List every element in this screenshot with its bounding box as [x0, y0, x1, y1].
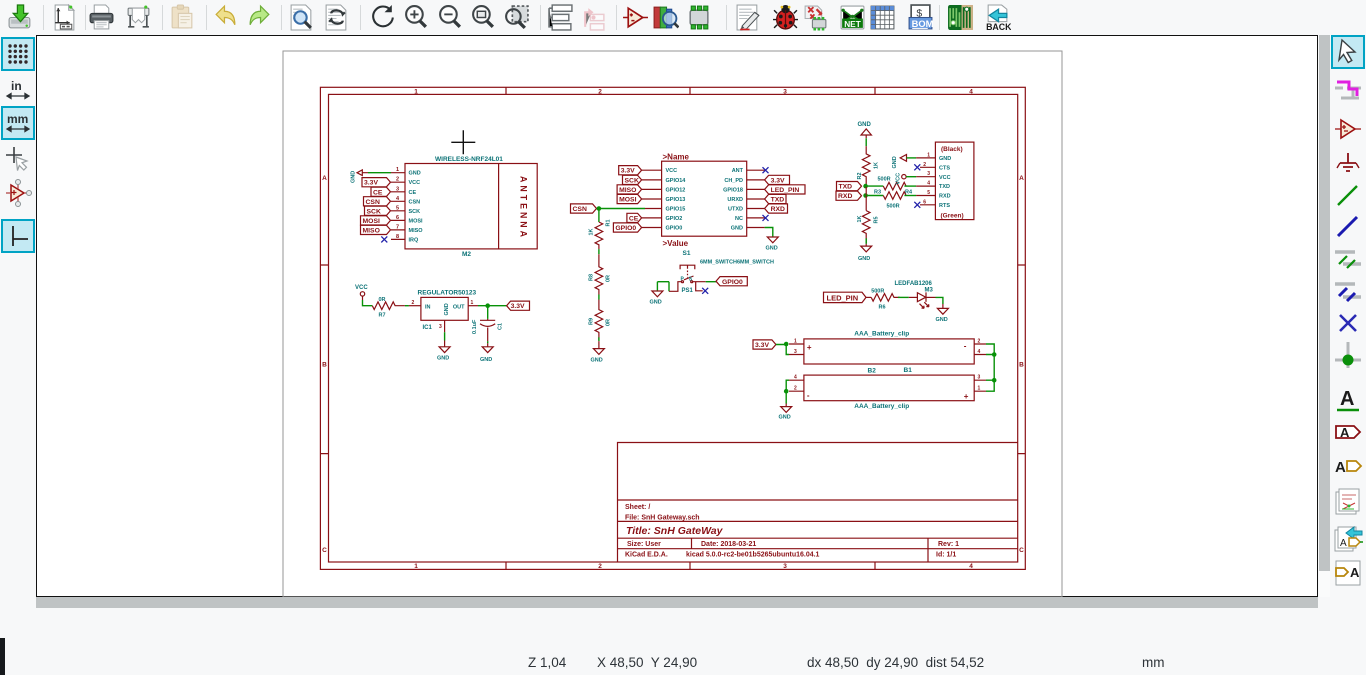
- svg-text:B: B: [1019, 362, 1024, 369]
- svg-text:GPIO13: GPIO13: [666, 197, 686, 203]
- icon HV wires (active): [3, 221, 33, 251]
- svg-text:RTS: RTS: [939, 203, 950, 209]
- svg-text:5: 5: [396, 205, 399, 211]
- svg-text:1: 1: [978, 386, 981, 392]
- svg-text:Sheet: /: Sheet: /: [625, 504, 650, 511]
- svg-text:1: 1: [396, 167, 399, 173]
- svg-text:LEDFAB1206: LEDFAB1206: [895, 281, 933, 287]
- global label 3.3V (S1 VCC): [619, 166, 642, 175]
- svg-text:8: 8: [396, 234, 399, 240]
- svg-text:3.3V: 3.3V: [771, 177, 785, 184]
- svg-text:CE: CE: [373, 189, 383, 196]
- svg-text:7: 7: [396, 224, 399, 230]
- svg-text:UTXD: UTXD: [728, 207, 743, 213]
- svg-text:VCC: VCC: [355, 285, 368, 291]
- svg-text:GND: GND: [858, 256, 870, 262]
- svg-text:0R: 0R: [379, 297, 386, 303]
- svg-text:PS1: PS1: [682, 288, 694, 294]
- svg-text:1: 1: [414, 563, 418, 570]
- svg-text:1: 1: [794, 338, 797, 344]
- B2 right pins: [974, 380, 986, 391]
- svg-text:GND: GND: [779, 415, 791, 421]
- power GND below B2: [779, 404, 792, 421]
- svg-text:TXD: TXD: [771, 197, 785, 204]
- wire RXD to R3: [866, 195, 884, 197]
- icon print: [88, 4, 115, 31]
- svg-text:1K: 1K: [857, 215, 863, 222]
- svg-text:VCC: VCC: [666, 168, 678, 174]
- junction at B1 left: [784, 342, 789, 347]
- global label TXD: [837, 182, 862, 191]
- title block frame: [618, 443, 1018, 563]
- wire R4 to pin4: [904, 185, 916, 187]
- svg-text:S1: S1: [683, 250, 691, 257]
- svg-text:RXD: RXD: [771, 206, 785, 213]
- no-connect X on S1 ANT: [763, 167, 769, 173]
- svg-text:Date: 2018-03-21: Date: 2018-03-21: [701, 541, 756, 548]
- icon find: [288, 4, 315, 31]
- svg-text:R2: R2: [857, 172, 863, 179]
- frame outer border: [320, 87, 1025, 569]
- power GND left of M2: [351, 170, 369, 183]
- svg-text:MISO: MISO: [619, 187, 636, 194]
- global label MISO (M2 pin7): [361, 225, 391, 234]
- svg-text:R8: R8: [589, 274, 595, 281]
- wire junction to C1: [487, 306, 489, 319]
- right toolbar: [1330, 35, 1366, 620]
- global label 3.3V (M2 pin2): [362, 178, 391, 187]
- svg-text:M2: M2: [462, 251, 471, 258]
- S1 right pins: [747, 170, 765, 227]
- resistor R4: [878, 177, 913, 196]
- svg-text:GND: GND: [650, 300, 662, 306]
- svg-text:3: 3: [978, 375, 981, 381]
- resistor R8: [589, 254, 612, 294]
- svg-text:LED_PIN: LED_PIN: [771, 187, 800, 194]
- power GND above R2: [858, 122, 872, 138]
- svg-text:3.3V: 3.3V: [364, 180, 378, 187]
- S1 body: [662, 161, 747, 236]
- wire GND to pin 1: [368, 172, 391, 174]
- svg-text:GPIO18: GPIO18: [723, 187, 743, 193]
- svg-text:6: 6: [396, 215, 399, 221]
- svg-text:>Value: >Value: [663, 239, 689, 248]
- wire 3.3V to B1 pins: [776, 345, 789, 355]
- wire B2 left pins to GND: [786, 380, 789, 403]
- global label MOSI (S1 GPIO13): [617, 194, 642, 203]
- global label RXD (S1 UTXD): [765, 204, 788, 213]
- svg-text:CTS: CTS: [939, 165, 950, 171]
- S1 left pins: [642, 170, 662, 227]
- frame column labels: [414, 89, 973, 571]
- icon add component: [622, 4, 649, 31]
- svg-text:C1: C1: [498, 323, 504, 330]
- icon annotate: [802, 4, 829, 31]
- svg-text:GPIO0: GPIO0: [666, 226, 683, 232]
- svg-text:RXD: RXD: [939, 194, 951, 200]
- global label LED_PIN (S1 GPIO18): [765, 185, 805, 194]
- icon units inches: [3, 75, 33, 105]
- svg-text:IRQ: IRQ: [409, 237, 420, 243]
- svg-text:VCC: VCC: [939, 175, 951, 181]
- battery B1 body: [804, 339, 974, 364]
- no-connect X on M2 pin8: [381, 236, 387, 242]
- svg-text:B2: B2: [868, 368, 877, 375]
- svg-text:CH_PD: CH_PD: [724, 178, 743, 184]
- icon paste disabled: [169, 4, 196, 31]
- svg-text:GPIO14: GPIO14: [666, 178, 687, 184]
- svg-text:1: 1: [927, 152, 930, 158]
- status bar: [0, 608, 1366, 675]
- svg-text:2: 2: [412, 300, 415, 306]
- svg-text:URXD: URXD: [727, 197, 743, 203]
- global label SCK (S1 GPIO14): [623, 175, 642, 184]
- junction TXD: [863, 184, 868, 189]
- left toolbar: [0, 35, 36, 597]
- svg-text:R6: R6: [879, 304, 886, 310]
- svg-text:6MM_SWITCH6MM_SWITCH: 6MM_SWITCH6MM_SWITCH: [700, 260, 774, 266]
- svg-text:Id: 1/1: Id: 1/1: [936, 552, 956, 559]
- icon select tool (active): [1333, 37, 1363, 67]
- frame row labels: [322, 175, 1024, 554]
- IC1 pin 3 gnd: [444, 320, 446, 332]
- icon plot: [125, 4, 152, 31]
- switch PS1 symbol: [680, 265, 695, 283]
- M2 pin names: [409, 171, 424, 244]
- svg-text:GND: GND: [731, 226, 743, 232]
- wire S1 GND down: [765, 228, 773, 238]
- connector pin numbers: [923, 152, 930, 205]
- svg-text:kicad 5.0.0-rc2-be01b5265ubunt: kicad 5.0.0-rc2-be01b5265ubuntu16.04.1: [686, 552, 820, 559]
- icon hierarchical label: [1333, 451, 1363, 481]
- icon place sheet: [1333, 487, 1363, 517]
- icon zoom fit: [470, 4, 497, 31]
- icon import sheet pin: [1333, 524, 1363, 554]
- power GND below S1: [766, 237, 779, 252]
- frame margin dividers: [320, 87, 1025, 569]
- B1 left pins: [789, 344, 804, 355]
- B2 left pins: [789, 380, 804, 391]
- icon BOM: [907, 4, 934, 31]
- svg-text:OUT: OUT: [453, 305, 465, 311]
- svg-text:KiCad E.D.A.: KiCad E.D.A.: [625, 552, 668, 559]
- IC1 body: [421, 297, 468, 320]
- icon find replace: [323, 4, 350, 31]
- wire R8 to R9: [598, 295, 600, 300]
- power VCC at connector pin3: [896, 173, 907, 185]
- svg-text:VCC: VCC: [896, 173, 902, 185]
- svg-text:5: 5: [927, 190, 930, 196]
- svg-text:4: 4: [927, 181, 930, 187]
- svg-text:3.3V: 3.3V: [621, 168, 635, 175]
- wire R9 to GND: [598, 337, 600, 341]
- junction RXD: [863, 193, 868, 198]
- wire VCC to R7: [363, 300, 373, 306]
- svg-text:GND: GND: [892, 156, 898, 168]
- power GND below R9: [591, 341, 605, 363]
- icon footprints: [685, 4, 712, 31]
- svg-text:GPIO12: GPIO12: [666, 187, 686, 193]
- wire CSN junction down: [598, 209, 600, 223]
- svg-text:SCK: SCK: [409, 209, 421, 215]
- svg-text:R1: R1: [606, 219, 612, 226]
- svg-text:SCK: SCK: [625, 177, 639, 184]
- svg-text:C: C: [322, 547, 327, 554]
- svg-text:GND: GND: [351, 171, 357, 183]
- power GND below R5: [858, 244, 872, 262]
- svg-text:R9: R9: [589, 318, 595, 325]
- svg-text:4: 4: [794, 375, 797, 381]
- wire OUT to 3.3V: [478, 305, 507, 307]
- global label LED_PIN: [824, 292, 867, 302]
- junction at C1: [485, 303, 490, 308]
- global label SCK (M2 pin5): [365, 206, 391, 215]
- svg-text:CSN: CSN: [573, 206, 587, 213]
- wire TXD to R4: [866, 185, 884, 187]
- svg-text:R5: R5: [874, 216, 880, 223]
- svg-text:NC: NC: [735, 216, 743, 222]
- connector pin names: [939, 156, 951, 209]
- capacitor C1: [472, 319, 504, 341]
- icon highlight net: [1333, 76, 1363, 106]
- M2 pin numbers: [396, 167, 400, 240]
- icon zoom out: [437, 4, 464, 31]
- no-connect X on switch pole: [702, 288, 708, 294]
- svg-text:GPIO2: GPIO2: [666, 216, 683, 222]
- cursor crosshair: [451, 130, 475, 154]
- svg-text:2: 2: [978, 338, 981, 344]
- svg-text:M3: M3: [925, 288, 934, 294]
- svg-text:1K: 1K: [589, 228, 595, 235]
- svg-text:R3: R3: [874, 190, 881, 196]
- svg-text:GND: GND: [766, 246, 778, 252]
- svg-text:GND: GND: [939, 156, 951, 162]
- svg-text:MOSI: MOSI: [409, 218, 424, 224]
- svg-text:VCC: VCC: [409, 180, 421, 186]
- IC1 pin 2: [409, 305, 421, 307]
- svg-text:File: SnH Gateway.sch: File: SnH Gateway.sch: [625, 515, 700, 522]
- icon bus to bus entry: [1333, 276, 1363, 306]
- svg-text:3: 3: [794, 349, 797, 355]
- svg-text:B1: B1: [904, 367, 913, 374]
- icon net label: [1333, 385, 1363, 415]
- svg-text:TXD: TXD: [939, 184, 950, 190]
- global label GPIO0 at switch: [716, 277, 747, 286]
- M2 pins 1-8: [391, 173, 405, 240]
- svg-text:3: 3: [396, 186, 399, 192]
- svg-text:2: 2: [598, 89, 602, 96]
- resistor R5: [857, 211, 880, 244]
- svg-text:3.3V: 3.3V: [755, 342, 769, 349]
- svg-text:REGULATOR50123: REGULATOR50123: [418, 290, 477, 297]
- svg-text:0.1uF: 0.1uF: [472, 319, 478, 334]
- wire LED_PIN to R6: [866, 296, 871, 298]
- no-connect X on S1 NC: [763, 215, 769, 221]
- svg-text:1K: 1K: [874, 162, 880, 169]
- wire R3 to pin5: [904, 195, 916, 197]
- wire B1 right pins down to B2: [986, 344, 994, 391]
- svg-text:3.3V: 3.3V: [511, 303, 525, 310]
- icon undo: [212, 4, 239, 31]
- svg-text:GPIO15: GPIO15: [666, 207, 686, 213]
- svg-text:CE: CE: [629, 215, 639, 222]
- vertical scrollbar thumb: [1319, 35, 1330, 571]
- resistor R3: [874, 190, 906, 210]
- global label 3.3V at IC1 out: [507, 301, 530, 310]
- svg-text:500R: 500R: [871, 288, 884, 294]
- svg-text:RXD: RXD: [838, 193, 852, 200]
- wire R1 to R8: [598, 249, 600, 254]
- icon place symbol: [1333, 114, 1363, 144]
- svg-text:C: C: [1019, 547, 1024, 554]
- connector pins: [916, 158, 935, 205]
- svg-text:+: +: [964, 392, 969, 401]
- power GND left of switch: [650, 291, 663, 306]
- junction CSN node: [597, 206, 602, 211]
- svg-text:4: 4: [969, 89, 973, 96]
- svg-text:GND: GND: [591, 358, 603, 364]
- wire RXD down to R5: [865, 196, 867, 211]
- resistor R7: [372, 297, 405, 318]
- svg-text:1: 1: [414, 89, 418, 96]
- svg-text:0R: 0R: [606, 275, 612, 282]
- wire R6 to LED: [898, 296, 917, 298]
- resistor R1: [589, 219, 612, 249]
- svg-text:WIRELESS-NRF24L01: WIRELESS-NRF24L01: [435, 156, 503, 163]
- no-connect X on pin6 RTS: [914, 202, 920, 208]
- top toolbar: [0, 0, 1366, 35]
- power VCC symbol: [355, 285, 368, 300]
- svg-text:3: 3: [783, 89, 787, 96]
- svg-text:GND: GND: [444, 303, 450, 315]
- svg-text:4: 4: [969, 563, 973, 570]
- connector body: [935, 142, 974, 220]
- icon netlist: [839, 4, 866, 31]
- icon global label: [1333, 417, 1363, 447]
- power GND below C1: [480, 343, 493, 363]
- power GND at connector pin1: [892, 155, 907, 169]
- svg-text:CSN: CSN: [409, 199, 421, 205]
- battery B2 body: [804, 375, 974, 401]
- svg-text:3: 3: [927, 171, 930, 177]
- global label CSN (M2 pin4): [364, 197, 391, 206]
- svg-text:MISO: MISO: [363, 227, 380, 234]
- vertical scrollbar track: [1319, 35, 1330, 597]
- S1 left pin names: [666, 168, 687, 231]
- icon place bus: [1333, 212, 1363, 242]
- wire TXD junction to RXD junction: [865, 186, 867, 195]
- svg-text:2: 2: [794, 386, 797, 392]
- module M2 body: [405, 164, 537, 249]
- svg-text:ANT: ANT: [732, 168, 744, 174]
- junction right top: [992, 352, 997, 357]
- wire VCC to pin3: [906, 176, 916, 178]
- svg-text:-: -: [964, 342, 967, 351]
- svg-text:GND: GND: [437, 356, 449, 362]
- svg-text:2: 2: [598, 563, 602, 570]
- icon leave sheet disabled: [580, 4, 607, 31]
- svg-text:MOSI: MOSI: [363, 218, 380, 225]
- svg-text:R7: R7: [379, 313, 386, 319]
- icon place power port: [1333, 149, 1363, 179]
- global label MISO (S1 GPIO12): [617, 185, 642, 194]
- horizontal scrollbar: [36, 597, 1318, 608]
- svg-text:B: B: [322, 362, 327, 369]
- icon place wire: [1333, 181, 1363, 211]
- svg-text:GND: GND: [936, 317, 948, 323]
- icon units mm (active): [3, 108, 33, 138]
- svg-text:IC1: IC1: [423, 325, 433, 331]
- svg-text:A: A: [1019, 175, 1024, 182]
- svg-text:>Name: >Name: [663, 153, 690, 162]
- wire LED to GND: [926, 297, 943, 304]
- svg-text:GND: GND: [858, 122, 872, 128]
- wire C1 to GND: [487, 341, 489, 343]
- wire IC1 gnd: [444, 332, 446, 340]
- svg-text:GND: GND: [409, 171, 421, 177]
- icon library browser: [652, 4, 679, 31]
- paper sheet: [283, 51, 1062, 597]
- power GND below LED: [936, 304, 949, 323]
- wire switch S to GPIO0: [693, 282, 716, 291]
- icon cursor shape: [3, 144, 33, 174]
- svg-text:AAA_Battery_clip: AAA_Battery_clip: [854, 403, 909, 410]
- icon redraw: [370, 4, 397, 31]
- svg-text:2: 2: [396, 177, 399, 183]
- icon back to pcb: [984, 4, 1011, 31]
- resistor R2: [857, 146, 880, 186]
- icon wire to bus entry: [1333, 244, 1363, 274]
- svg-text:+: +: [807, 343, 812, 352]
- icon no connect: [1333, 308, 1363, 338]
- icon show hidden pins: [3, 178, 33, 208]
- svg-text:500R: 500R: [878, 177, 891, 183]
- schematic canvas: [36, 35, 1318, 597]
- icon pcbnew: [947, 4, 974, 31]
- resistor R9: [589, 300, 612, 340]
- svg-text:3: 3: [439, 324, 442, 330]
- icon edit fields table: [869, 4, 896, 31]
- svg-text:Title: SnH GateWay: Title: SnH GateWay: [626, 525, 724, 537]
- svg-text:(Black): (Black): [941, 146, 963, 153]
- svg-text:6: 6: [923, 199, 926, 205]
- global label TXD (S1 URXD): [765, 194, 786, 203]
- icon place sheet pin: [1333, 558, 1363, 588]
- svg-text:TXD: TXD: [839, 184, 853, 191]
- svg-text:3: 3: [783, 563, 787, 570]
- svg-text:GND: GND: [480, 357, 492, 363]
- svg-text:0R: 0R: [606, 319, 612, 326]
- power GND below IC1: [437, 341, 450, 362]
- svg-text:-: -: [807, 391, 810, 400]
- svg-text:A: A: [322, 175, 327, 182]
- wire GND to R2: [865, 138, 867, 146]
- svg-text:IN: IN: [425, 305, 431, 311]
- global label CSN: [571, 204, 597, 213]
- svg-text:2: 2: [923, 162, 926, 168]
- wire R7 to IC1: [405, 305, 409, 307]
- window corner artifact: [0, 638, 5, 675]
- global label GPIO0 (S1 GPIO0): [613, 223, 641, 232]
- svg-text:SCK: SCK: [367, 208, 381, 215]
- svg-text:ANTENNA: ANTENNA: [519, 176, 529, 240]
- wire CSN to S1 GPIO15: [597, 208, 646, 210]
- svg-text:1: 1: [471, 300, 474, 306]
- svg-text:MOSI: MOSI: [619, 197, 636, 204]
- svg-text:GPIO0: GPIO0: [615, 225, 636, 232]
- svg-text:MISO: MISO: [409, 228, 424, 234]
- icon edit sheet: [735, 4, 762, 31]
